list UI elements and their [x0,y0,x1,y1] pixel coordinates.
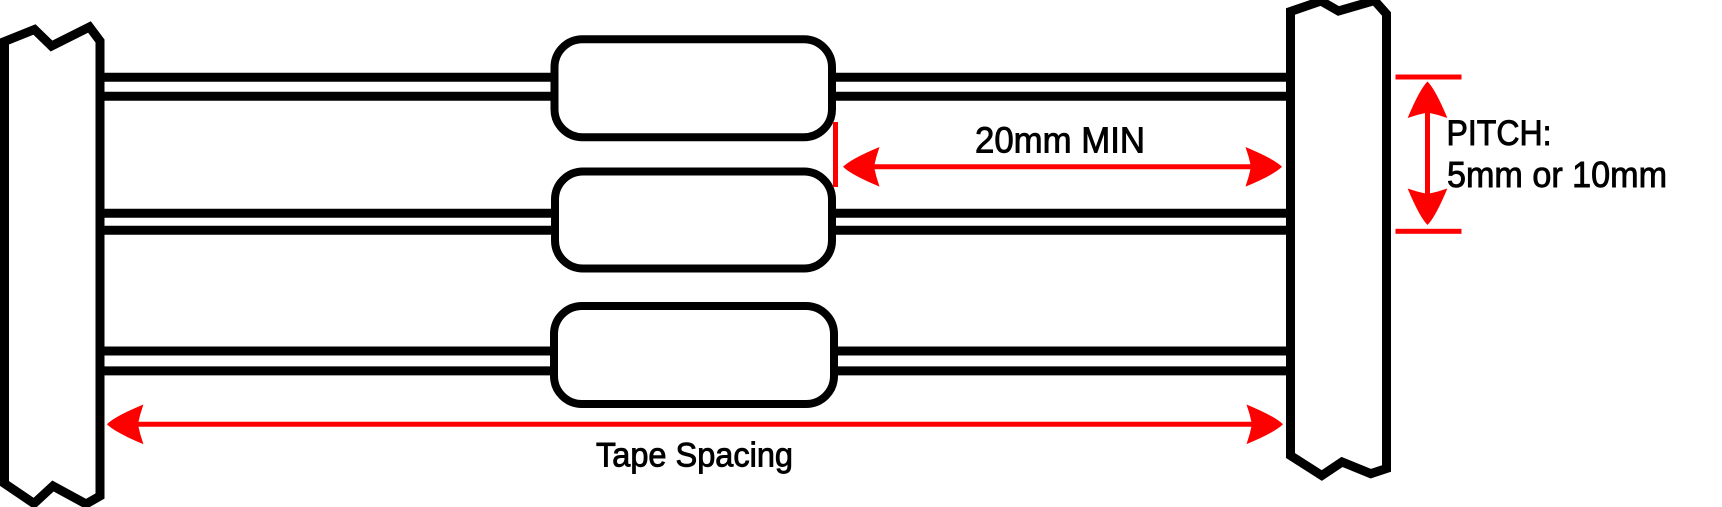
wire: component 2 left lead (double line) [95,213,560,230]
svg-text:5mm or 10mm: 5mm or 10mm [1447,154,1667,195]
wire: component 1 left lead (double line) [95,77,560,96]
component body 2 (axial component pill) [555,172,832,269]
arrowhead bottom of pitch arrow [1408,189,1448,226]
pitch dimension vertical arrow shaft [1425,108,1430,199]
arrowhead left of 20mm arrow [843,147,880,187]
pitch bottom tick [1396,229,1462,234]
arrowhead top of pitch arrow [1408,82,1448,119]
component body 3 (axial component pill) [554,306,834,404]
wire: component 3 right lead (double line) [828,351,1295,371]
dimension arrow "20mm MIN" shaft [868,164,1258,169]
red extension tick at component 1 body end [833,122,838,187]
left tape strip (torn edges) [5,27,101,504]
arrowhead right of tape spacing arrow [1247,404,1284,444]
wire: component 2 right lead (double line) [828,213,1295,230]
svg-text:20mm MIN: 20mm MIN [975,120,1145,161]
tape spacing dimension arrow shaft [132,422,1258,427]
pitch top tick [1396,75,1462,80]
right tape strip (torn edges) [1291,1,1387,476]
svg-text:PITCH:: PITCH: [1447,114,1552,153]
svg-text:Tape Spacing: Tape Spacing [596,437,793,475]
component body 1 (axial component pill) [555,39,833,137]
wire: component 1 right lead (double line) [828,77,1295,96]
wire: component 3 left lead (double line) [95,351,560,371]
arrowhead left of tape spacing arrow [107,404,143,444]
arrowhead right of 20mm arrow [1246,147,1283,187]
